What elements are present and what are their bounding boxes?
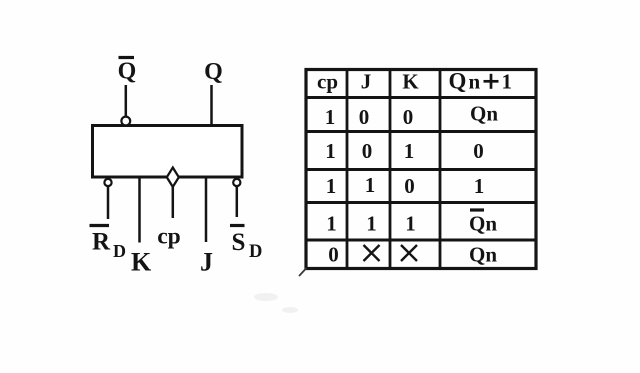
svg-text:Qn: Qn [470, 102, 498, 126]
truth table row 5: 0 x x Qn [328, 243, 497, 267]
truth table row 3: 1 1 0 1 [326, 173, 485, 198]
inversion bubble Qbar [121, 117, 130, 126]
svg-text:D: D [249, 242, 262, 262]
truth table row 1: 1 0 0 Qn [325, 102, 499, 130]
svg-text:J: J [200, 248, 213, 277]
svg-text:Qn: Qn [469, 243, 497, 267]
wire cp [172, 187, 175, 218]
svg-text:K: K [131, 248, 152, 277]
wire SD [236, 186, 239, 217]
svg-text:0: 0 [403, 105, 414, 129]
svg-text:1: 1 [404, 139, 415, 163]
svg-text:0: 0 [473, 139, 484, 163]
truth table grid [306, 70, 536, 269]
clock dynamic-input diamond cp [167, 168, 179, 187]
svg-text:cp: cp [157, 224, 181, 250]
svg-text:0: 0 [362, 139, 373, 163]
wire K [138, 177, 141, 243]
faint scan smudge [254, 293, 298, 313]
svg-text:0: 0 [328, 243, 339, 267]
svg-text:Qn: Qn [469, 212, 497, 236]
svg-text:n: n [469, 70, 481, 94]
svg-text:Q: Q [118, 59, 137, 85]
svg-text:1: 1 [326, 174, 337, 198]
svg-text:1: 1 [326, 212, 337, 236]
label RD [90, 226, 127, 262]
wire J [205, 177, 208, 243]
svg-text:R: R [92, 229, 111, 256]
wire Qbar [125, 85, 128, 117]
svg-text:Q: Q [204, 59, 223, 85]
svg-text:1: 1 [325, 139, 336, 163]
svg-text:1: 1 [405, 212, 416, 236]
svg-text:Q: Q [449, 69, 467, 94]
truth table header row [317, 69, 512, 94]
svg-text:1: 1 [474, 174, 485, 198]
inversion bubble RD [104, 179, 111, 186]
inversion bubble SD [233, 179, 240, 186]
svg-text:J: J [361, 70, 372, 94]
wire Q [210, 85, 213, 126]
svg-text:K: K [402, 70, 419, 94]
svg-text:1: 1 [365, 173, 376, 197]
svg-text:cp: cp [317, 70, 338, 94]
svg-text:S: S [232, 229, 246, 256]
svg-text:0: 0 [404, 174, 415, 198]
svg-text:1: 1 [502, 70, 513, 94]
wire RD [107, 186, 110, 219]
flip-flop U1 body [93, 126, 243, 178]
svg-text:1: 1 [325, 105, 336, 129]
truth table row 2: 1 0 1 0 [325, 139, 484, 163]
svg-text:1: 1 [366, 212, 377, 236]
svg-text:0: 0 [359, 105, 370, 129]
label SD [230, 226, 262, 263]
label Qbar [118, 58, 137, 85]
truth table row 4: 1 1 1 Qbar-n [326, 210, 497, 236]
svg-text:D: D [113, 241, 126, 261]
scan artifact tick at table corner [300, 269, 307, 276]
